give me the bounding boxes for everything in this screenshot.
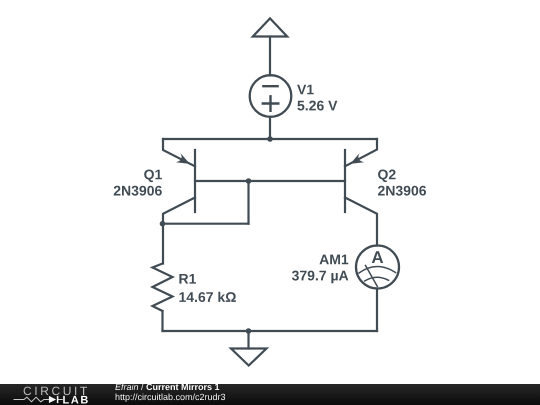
ammeter AM1 needle [366,266,378,287]
voltage source V1 circle [250,75,292,117]
ammeter AM1 upper arc [359,266,396,273]
wire base junction down [247,181,249,224]
V1 plus sign [263,102,279,104]
wire bottom rail [163,330,378,332]
resistor R1 zigzag [153,264,173,312]
footer author and title text [115,384,219,391]
footer url text [116,394,226,402]
label AM1 [320,255,349,265]
logo word LAB [63,396,88,404]
node junction dot base rail [246,178,252,184]
ammeter A letter [372,251,383,263]
transistor Q1 collector lead [163,198,195,264]
label V1 [297,85,314,95]
logo diode triangle [49,396,56,403]
ammeter AM1 circle [356,246,399,289]
logo diode wire [58,399,63,401]
node junction dot top rail [267,136,273,142]
node junction dot ground [246,328,252,334]
ground triangle [231,349,267,366]
node junction dot collector tie [160,221,166,227]
transistor Q1 emitter arrow [176,153,190,164]
footer bar [0,384,540,405]
label V1 value 5.26 V [297,101,337,111]
logo resistor zigzag [14,397,49,402]
wire AM1 bottom lead [376,289,378,332]
logo word CIRCUIT [24,387,87,396]
transistor Q2 emitter lead [345,139,377,166]
wire V1 bottom to top rail [269,117,271,139]
label Q1 [144,170,162,183]
transistor Q2 base bar [344,150,346,212]
wire base tie to collector [163,223,249,225]
V1 minus sign [263,85,277,87]
transistor Q2 emitter arrow [350,153,364,164]
ammeter AM1 lower arc [365,277,389,281]
transistor Q1 emitter lead [163,139,195,166]
power supply VCC triangle [253,18,287,36]
label Q1 part 2N3906 [114,186,162,196]
wire top rail [163,138,377,140]
label R1 value 14.67 kOhm [179,292,236,302]
wire base rail Q1 to Q2 [195,180,345,182]
transistor Q1 base bar [194,150,196,212]
wire VCC to V1 top [269,37,271,76]
label R1 [179,274,196,284]
ground stem [247,331,249,349]
label AM1 value 379.7 uA [292,271,348,284]
logo diode bar [57,396,59,403]
wire R1 bottom lead [161,311,163,331]
label Q2 part 2N3906 [378,186,426,196]
transistor Q2 collector lead [345,198,377,246]
label Q2 [378,170,396,183]
